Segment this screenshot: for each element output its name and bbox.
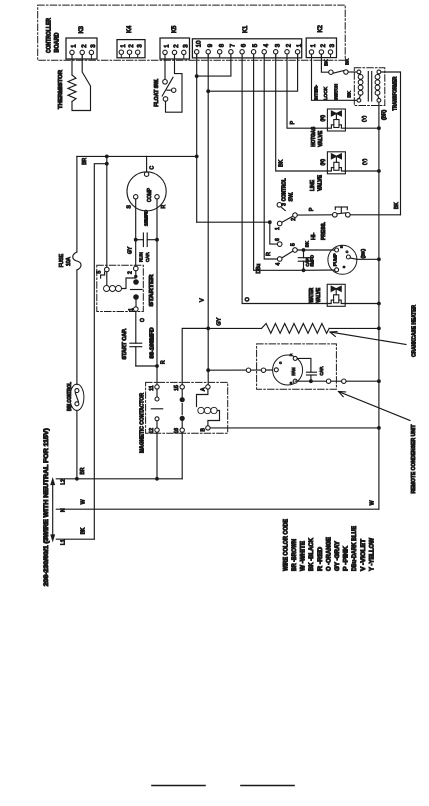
svg-text:K2: K2 bbox=[318, 24, 324, 32]
svg-text:BIN CONTROL: BIN CONTROL bbox=[67, 382, 73, 411]
svg-text:16: 16 bbox=[174, 428, 180, 434]
svg-text:L1: L1 bbox=[61, 539, 67, 545]
wire pump to transformer bus black bbox=[357, 248, 379, 259]
svg-text:O -ORANGE: O -ORANGE bbox=[326, 537, 332, 571]
svg-text:LINE: LINE bbox=[310, 179, 316, 191]
svg-text:THERMISTOR: THERMISTOR bbox=[58, 70, 64, 109]
svg-text:1: 1 bbox=[275, 227, 281, 230]
svg-text:BK: BK bbox=[347, 90, 353, 97]
wire water valve to transformer bus bbox=[345, 303, 379, 305]
svg-text:2: 2 bbox=[129, 44, 135, 48]
svg-text:COMP: COMP bbox=[147, 187, 153, 202]
svg-text:15MFD: 15MFD bbox=[143, 209, 148, 226]
thermistor bbox=[58, 55, 91, 111]
svg-text:3: 3 bbox=[330, 43, 336, 47]
svg-text:K1: K1 bbox=[243, 25, 249, 33]
remote condenser callout bbox=[339, 392, 417, 494]
svg-text:BK: BK bbox=[324, 59, 329, 66]
svg-text:6: 6 bbox=[242, 43, 248, 47]
transformer bbox=[354, 68, 398, 111]
wire hot gas valve to transformer bus bbox=[345, 115, 379, 128]
svg-text:S: S bbox=[127, 205, 133, 209]
svg-text:2: 2 bbox=[291, 218, 297, 221]
svg-text:MAGNETIC CONTACTOR: MAGNETIC CONTACTOR bbox=[140, 393, 146, 453]
svg-text:DBu: DBu bbox=[256, 264, 262, 274]
svg-text:R: R bbox=[266, 252, 272, 256]
interlock switch bbox=[312, 54, 358, 100]
power supply L2 brown bbox=[56, 467, 182, 484]
svg-text:PRESS.: PRESS. bbox=[321, 222, 327, 240]
svg-text:2: 2 bbox=[321, 43, 327, 47]
svg-text:7: 7 bbox=[231, 43, 237, 47]
svg-text:S: S bbox=[289, 382, 293, 384]
svg-text:FUSE: FUSE bbox=[59, 253, 65, 267]
svg-text:DBu-DARK BLUE: DBu-DARK BLUE bbox=[352, 526, 358, 571]
svg-text:V: V bbox=[199, 298, 205, 302]
wire transformer secondary top black bbox=[381, 72, 400, 215]
run capacitor 15MFD bbox=[127, 209, 159, 262]
svg-text:VALVE: VALVE bbox=[318, 130, 324, 147]
capacitor pump 5MFD bbox=[298, 250, 314, 272]
svg-text:BK: BK bbox=[278, 159, 284, 167]
wire color code legend bbox=[284, 519, 376, 571]
svg-text:10A: 10A bbox=[66, 256, 72, 266]
wire control switch to pump top bbox=[297, 241, 334, 252]
svg-text:P -PINK: P -PINK bbox=[344, 545, 350, 571]
svg-text:CAP.: CAP. bbox=[319, 366, 324, 375]
wire BR feed bus bbox=[77, 155, 197, 165]
wire contactor coil B to bus bbox=[210, 427, 379, 429]
crankcase heater resistor bbox=[182, 317, 379, 333]
wire run cap to starter contact 2 bbox=[135, 240, 137, 267]
svg-text:K3: K3 bbox=[79, 25, 85, 33]
svg-text:11: 11 bbox=[149, 385, 155, 390]
svg-text:FLOAT SW.: FLOAT SW. bbox=[154, 78, 160, 106]
svg-text:CONTROL: CONTROL bbox=[282, 178, 288, 202]
svg-text:6: 6 bbox=[275, 238, 281, 241]
wire K1 pin5 dark blue to pump bbox=[254, 54, 304, 273]
wire contactor 12 to L2 bbox=[156, 432, 158, 479]
capacitor fan bbox=[297, 358, 324, 383]
svg-text:(Y): (Y) bbox=[362, 115, 368, 122]
svg-text:C: C bbox=[150, 166, 156, 170]
power supply N white bbox=[56, 499, 379, 512]
wire BR to starter contact 5 bbox=[105, 156, 109, 267]
svg-text:3: 3 bbox=[91, 44, 97, 48]
wire K1 pin2 pink to hot gas valve bbox=[287, 54, 327, 128]
hot gas valve bbox=[311, 109, 346, 147]
footer line left bbox=[152, 785, 205, 787]
wire L1 black riser bbox=[94, 164, 107, 540]
svg-text:INTER-: INTER- bbox=[314, 85, 320, 100]
controller board outline bbox=[38, 5, 346, 60]
svg-text:START CAP.: START CAP. bbox=[122, 328, 128, 360]
hi-press switch bbox=[297, 207, 400, 240]
wire fan bottom to bus bbox=[295, 379, 379, 383]
wire K1 pin7 jumper bbox=[197, 54, 231, 76]
wire line valve to transformer bus bbox=[345, 158, 379, 171]
svg-text:VALVE: VALVE bbox=[316, 287, 322, 303]
wire K1 pin6 orange to water valve bbox=[242, 54, 327, 303]
connector K1 bbox=[192, 25, 303, 58]
footer line right bbox=[241, 785, 294, 787]
wire compressor S to run cap bbox=[135, 199, 137, 240]
svg-text:4: 4 bbox=[275, 263, 281, 266]
svg-text:10: 10 bbox=[196, 40, 202, 47]
svg-text:5: 5 bbox=[290, 243, 296, 246]
svg-text:2: 2 bbox=[128, 271, 134, 274]
svg-text:(BR): (BR) bbox=[382, 109, 388, 120]
svg-text:N: N bbox=[61, 508, 67, 512]
power supply L1 black bbox=[56, 527, 94, 545]
svg-text:LOCK: LOCK bbox=[323, 86, 329, 100]
svg-text:SWITCH: SWITCH bbox=[333, 84, 339, 100]
svg-text:5: 5 bbox=[97, 271, 103, 274]
svg-text:V -VIOLET: V -VIOLET bbox=[361, 539, 367, 571]
svg-text:2: 2 bbox=[287, 43, 293, 47]
wire K1 pin4 red to control switch bbox=[264, 54, 277, 259]
wire fan feed bbox=[208, 368, 274, 372]
compressor motor bbox=[127, 156, 168, 211]
wire run cap to start cap and contactor bbox=[155, 240, 166, 385]
svg-text:3: 3 bbox=[275, 43, 281, 47]
svg-text:BK: BK bbox=[81, 527, 87, 534]
svg-text:TRANSFORMER: TRANSFORMER bbox=[393, 77, 399, 111]
svg-text:O: O bbox=[140, 318, 146, 322]
svg-text:S: S bbox=[342, 266, 346, 268]
svg-text:R: R bbox=[161, 205, 167, 209]
svg-text:BR -BROWN: BR -BROWN bbox=[292, 539, 298, 571]
wire K1 pin3 black to line valve bbox=[276, 54, 328, 171]
svg-text:(BK): (BK) bbox=[361, 248, 367, 258]
connector K3 bbox=[66, 25, 97, 59]
magnetic contactor bbox=[140, 382, 228, 453]
svg-text:1: 1 bbox=[129, 308, 135, 311]
line valve bbox=[310, 152, 345, 191]
svg-text:BOARD: BOARD bbox=[55, 32, 61, 53]
connector K2 bbox=[306, 24, 336, 57]
svg-text:L2: L2 bbox=[61, 479, 67, 485]
svg-text:SW.: SW. bbox=[289, 192, 295, 202]
wire K1 pin1 jumper bbox=[208, 54, 297, 91]
svg-text:1: 1 bbox=[121, 44, 127, 48]
bin control switch bbox=[67, 382, 84, 411]
svg-text:88-108MFD: 88-108MFD bbox=[149, 327, 155, 358]
svg-text:CONTROLLER: CONTROLLER bbox=[47, 17, 53, 53]
svg-text:O: O bbox=[245, 297, 251, 302]
svg-text:GY -GRAY: GY -GRAY bbox=[335, 541, 341, 571]
svg-text:BK: BK bbox=[305, 241, 310, 247]
svg-text:BR: BR bbox=[82, 157, 88, 164]
svg-text:RUN: RUN bbox=[138, 252, 143, 262]
svg-text:(R): (R) bbox=[320, 158, 326, 165]
wire K1 pin10 feed bbox=[195, 54, 270, 222]
svg-text:BK: BK bbox=[394, 202, 400, 209]
fan motor bbox=[273, 353, 303, 385]
svg-text:12: 12 bbox=[149, 428, 155, 434]
svg-text:(Y): (Y) bbox=[362, 158, 368, 165]
svg-text:GY: GY bbox=[127, 246, 133, 254]
svg-text:3: 3 bbox=[282, 203, 288, 206]
wire contactor 15 to violet line bbox=[182, 328, 208, 384]
svg-text:R: R bbox=[289, 353, 293, 356]
svg-text:STARTER: STARTER bbox=[149, 274, 155, 306]
svg-text:BK: BK bbox=[345, 58, 350, 65]
svg-text:GY: GY bbox=[216, 317, 222, 325]
remote condenser unit box bbox=[257, 344, 337, 389]
svg-text:W -WHITE: W -WHITE bbox=[301, 541, 307, 571]
wire transformer secondary bottom brown bus bbox=[377, 103, 388, 510]
svg-text:REMOTE CONDENSER UNIT: REMOTE CONDENSER UNIT bbox=[411, 424, 417, 494]
control switch bbox=[268, 178, 297, 266]
svg-text:1: 1 bbox=[165, 44, 171, 48]
svg-text:5MFD: 5MFD bbox=[310, 255, 315, 266]
svg-text:Y -YELLOW: Y -YELLOW bbox=[369, 538, 375, 571]
svg-text:1: 1 bbox=[72, 44, 78, 48]
svg-text:WATER: WATER bbox=[309, 287, 315, 302]
svg-text:1: 1 bbox=[311, 43, 317, 47]
water valve bbox=[309, 284, 345, 306]
svg-text:HI-: HI- bbox=[311, 233, 317, 241]
wire pump bottom bbox=[304, 269, 335, 271]
starter relay bbox=[97, 265, 156, 311]
pump motor bbox=[328, 245, 357, 274]
svg-text:3: 3 bbox=[183, 44, 189, 48]
svg-text:HOTGAS: HOTGAS bbox=[311, 126, 317, 147]
svg-text:5: 5 bbox=[253, 43, 259, 47]
svg-text:W: W bbox=[81, 499, 87, 504]
wire bin control to L2 bbox=[76, 410, 78, 478]
svg-text:2: 2 bbox=[82, 44, 88, 48]
svg-text:PUMP: PUMP bbox=[332, 253, 337, 266]
svg-text:9: 9 bbox=[208, 43, 214, 47]
connector K5 bbox=[160, 25, 190, 59]
wire compressor R to run cap bbox=[156, 199, 158, 240]
float switch bbox=[154, 55, 182, 112]
svg-text:P: P bbox=[309, 207, 315, 211]
svg-text:FAN: FAN bbox=[291, 367, 296, 375]
svg-text:2: 2 bbox=[174, 44, 180, 48]
svg-text:R: R bbox=[160, 360, 166, 364]
svg-text:CRANKCASE HEATER: CRANKCASE HEATER bbox=[412, 305, 418, 357]
connector K4 bbox=[117, 25, 145, 58]
svg-text:15: 15 bbox=[174, 385, 180, 391]
svg-text:W: W bbox=[369, 500, 375, 505]
fuse 10A bbox=[59, 156, 81, 384]
wire K1 pin9 violet bbox=[199, 54, 210, 385]
svg-text:R -RED: R -RED bbox=[318, 546, 324, 571]
svg-text:CAP.: CAP. bbox=[145, 252, 150, 262]
svg-text:8: 8 bbox=[219, 43, 225, 47]
svg-text:WIRE COLOR CODE: WIRE COLOR CODE bbox=[284, 519, 290, 571]
svg-text:P: P bbox=[290, 121, 296, 125]
svg-text:(R): (R) bbox=[320, 114, 326, 121]
svg-text:VALVE: VALVE bbox=[318, 174, 324, 191]
svg-text:4: 4 bbox=[264, 43, 270, 47]
wire contactor 16 to L2 bbox=[181, 432, 183, 479]
svg-text:K4: K4 bbox=[127, 25, 133, 33]
svg-text:K5: K5 bbox=[172, 25, 178, 33]
svg-text:BK -BLACK: BK -BLACK bbox=[309, 537, 315, 571]
crankcase heater callout bbox=[330, 305, 418, 357]
svg-text:3: 3 bbox=[137, 44, 143, 48]
svg-text:BR: BR bbox=[80, 467, 86, 474]
svg-text:208-230/60/1 (3WIRE WITH NEUTR: 208-230/60/1 (3WIRE WITH NEUTRAL FOR 115… bbox=[44, 428, 50, 586]
start capacitor 88-108MFD bbox=[122, 311, 157, 366]
power dimension arrow bbox=[51, 479, 54, 541]
